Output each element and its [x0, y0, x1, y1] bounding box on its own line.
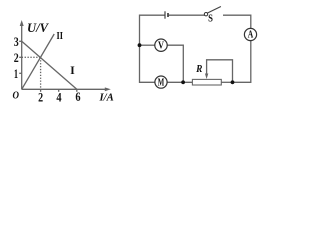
svg-text:O: O: [12, 89, 19, 101]
svg-text:3: 3: [14, 35, 19, 49]
svg-text:U/V: U/V: [27, 20, 49, 35]
svg-text:4: 4: [56, 90, 62, 104]
svg-text:I: I: [70, 63, 75, 77]
svg-text:II: II: [57, 30, 64, 42]
svg-text:S: S: [208, 14, 213, 25]
svg-text:1: 1: [14, 67, 18, 81]
svg-text:2: 2: [38, 90, 43, 104]
svg-text:2: 2: [14, 51, 19, 65]
svg-text:V: V: [158, 39, 164, 51]
svg-text:I/A: I/A: [99, 92, 114, 104]
svg-text:A: A: [248, 29, 254, 41]
svg-text:M: M: [158, 76, 165, 88]
svg-text:R: R: [195, 63, 202, 75]
svg-text:6: 6: [75, 90, 80, 104]
